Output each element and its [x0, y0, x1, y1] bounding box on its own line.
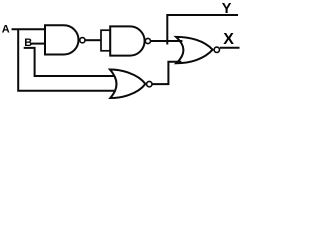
- svg-text:X: X: [223, 31, 234, 48]
- svg-text:B: B: [24, 37, 32, 49]
- svg-text:Y: Y: [222, 1, 232, 17]
- svg-text:A: A: [2, 24, 10, 36]
